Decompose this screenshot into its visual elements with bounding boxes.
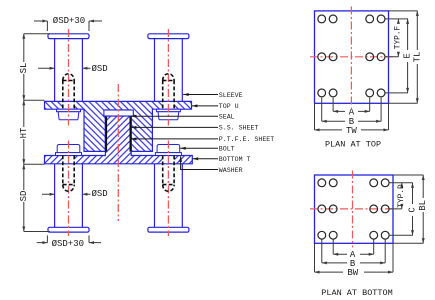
bolt hole whiteout top plate right: [163, 102, 175, 109]
leader P.T.F.E. SHEET: [131, 138, 218, 140]
dim OSD top: [38, 67, 91, 69]
washer top-right bolt: [156, 109, 180, 112]
bolt hole whiteout bottom plate left: [63, 156, 75, 163]
sleeve top-right flange: [148, 34, 189, 39]
dim SL-HT-SD vertical line: [23, 34, 25, 232]
dim TW: [315, 129, 389, 131]
svg-text:ØSD+30: ØSD+30: [53, 16, 85, 26]
plan at bottom: right extension lines: [389, 175, 424, 243]
svg-text:PLAN AT TOP: PLAN AT TOP: [325, 139, 381, 149]
dim B top plan: [322, 120, 381, 122]
svg-text:TW: TW: [346, 126, 357, 136]
dim OSD+30 top: [34, 21, 102, 31]
sleeve top-left flange: [48, 34, 89, 39]
plan at top: bottom extension lines: [315, 98, 389, 130]
svg-text:SEAL: SEAL: [219, 114, 235, 121]
centerline top-right bolt: [167, 29, 169, 126]
dim A top plan: [333, 110, 370, 112]
centerline bearing axis: [117, 84, 119, 221]
sleeve bottom-left flange: [48, 227, 89, 232]
svg-text:BOTTOM T: BOTTOM T: [219, 156, 251, 163]
svg-text:BL: BL: [418, 200, 428, 211]
dim OSD bottom: [42, 193, 91, 195]
head top-left bolt: [58, 112, 79, 120]
sleeve bottom-right body: [155, 164, 183, 228]
washer bottom-left bolt: [56, 153, 82, 156]
dim TL: [416, 11, 418, 103]
leader SLEEVE: [183, 94, 218, 96]
plan at bottom: bolt circles row 2: [318, 205, 389, 213]
head top-right bolt: [158, 112, 179, 120]
svg-text:ØSD: ØSD: [92, 189, 108, 199]
plan at top: right extension lines: [386, 11, 418, 103]
svg-text:TOP U: TOP U: [219, 103, 239, 110]
centerline bottom-left bolt: [68, 141, 70, 237]
dim BL: [422, 175, 424, 243]
svg-text:ØSD: ØSD: [92, 64, 108, 74]
svg-text:SLEEVE: SLEEVE: [219, 92, 243, 99]
leader BOTTOM T: [193, 158, 218, 160]
leader TOP U: [192, 105, 218, 107]
seal strip: [104, 110, 133, 116]
sleeve top-left body: [55, 39, 83, 102]
svg-text:SD: SD: [19, 191, 29, 202]
hidden bolt top-right (dashed): [163, 74, 174, 109]
leader WASHER: [181, 156, 218, 169]
dim arrows vertical chain: [22, 34, 25, 39]
washer top-left bolt: [57, 109, 81, 112]
svg-text:BOLT: BOLT: [219, 146, 235, 153]
top plate TOP U (plate with pot walls, hatched): [45, 101, 192, 151]
plan at top: bolt circles row 3: [318, 89, 385, 97]
svg-text:A: A: [349, 107, 355, 117]
hidden bolt bottom-left (dashed): [63, 156, 74, 192]
svg-text:S.S. SHEET: S.S. SHEET: [219, 125, 259, 132]
leader S.S. SHEET: [131, 126, 218, 128]
plan at bottom: bolt circles row 1: [318, 179, 389, 187]
svg-text:P.T.F.E. SHEET: P.T.F.E. SHEET: [219, 136, 274, 143]
plan at top: horizontal centerline: [310, 56, 396, 58]
sleeve bottom-left body: [55, 164, 83, 228]
head bottom-left bolt: [57, 145, 80, 153]
svg-text:SL: SL: [19, 63, 29, 74]
svg-text:ØSD+30: ØSD+30: [52, 239, 84, 249]
centerline bottom-right bolt: [167, 141, 169, 237]
svg-text:HT: HT: [19, 127, 29, 138]
plan at top: bolt circles row 2: [318, 53, 385, 61]
svg-text:E: E: [403, 53, 413, 58]
dim B bottom plan: [322, 262, 385, 264]
leader BOLT: [180, 147, 218, 149]
washer bottom-right bolt: [155, 153, 181, 156]
sleeve top-right body: [155, 39, 183, 102]
bottom plate BOTTOM T (plate with piston, hatched): [45, 116, 193, 164]
dim OSD+30 bottom: [37, 235, 101, 242]
plan at top: vertical centerline: [350, 7, 352, 108]
plan at bottom: bottom extension lines: [315, 240, 394, 273]
svg-text:TL: TL: [412, 52, 422, 63]
svg-text:BW: BW: [347, 268, 358, 278]
leader SEAL: [131, 115, 218, 117]
centerline top-left bolt: [68, 29, 70, 126]
dim TYP.D: [401, 183, 403, 209]
svg-text:TYP.F: TYP.F: [394, 25, 402, 49]
hidden bolt bottom-right (dashed): [163, 156, 174, 192]
dim E: [407, 19, 409, 93]
svg-text:PLAN AT BOTTOM: PLAN AT BOTTOM: [321, 288, 392, 298]
dim TYP.F: [397, 19, 399, 57]
hidden bolt top-left (dashed): [63, 74, 74, 109]
P.T.F.E. sheet (black): [129, 117, 131, 152]
svg-text:TYP.D: TYP.D: [398, 184, 406, 208]
bolt hole whiteout top plate left: [63, 102, 75, 109]
bolt hole whiteout bottom plate right: [163, 156, 175, 163]
dim extension lines left: [24, 34, 50, 232]
svg-text:WASHER: WASHER: [219, 167, 243, 174]
plan at bottom: vertical centerline: [352, 171, 354, 248]
svg-text:C: C: [408, 207, 418, 213]
S.S. sheet (black): [105, 117, 107, 152]
plan at bottom: plate outline: [315, 175, 394, 243]
plan at top: plate outline: [315, 11, 389, 103]
dim A bottom plan: [333, 253, 374, 255]
head bottom-right bolt: [157, 145, 180, 153]
plan at top: bolt circles row 1: [318, 15, 385, 23]
plan at bottom: bolt circles row 3: [318, 231, 389, 239]
dim BW: [315, 271, 394, 273]
plan at bottom: horizontal centerline: [310, 208, 397, 210]
sleeve bottom-right flange: [148, 227, 189, 232]
dim C: [412, 183, 414, 235]
